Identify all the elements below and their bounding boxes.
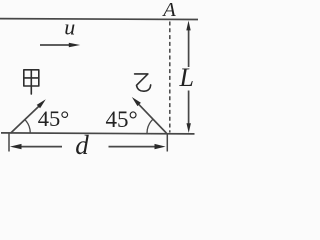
ground line [1,133,195,134]
dimension L upper arrow shaft [188,27,190,67]
arrowhead u [69,43,80,48]
svg-text:45°: 45° [38,106,70,131]
svg-text:d: d [75,130,89,160]
svg-text:u: u [64,15,75,40]
projectile arrow 甲 shaft [11,105,40,133]
dimension d right arrow shaft [109,146,159,148]
arrowhead L up [186,21,190,31]
arrowhead d left [10,144,22,149]
dashed vertical line [169,22,171,133]
label jia (Chinese char drawn as strokes) [24,70,39,94]
projectile arrow 乙 shaft [139,104,167,133]
extension tick right [166,134,168,152]
angle arc 45 right [147,119,153,133]
arrowhead 甲 [37,99,46,108]
arrowhead L down [187,123,191,133]
arrowhead 乙 [132,97,141,106]
dimension d left arrow shaft [17,146,63,148]
svg-text:A: A [161,0,176,21]
velocity arrow u shaft [40,44,70,46]
svg-text:45°: 45° [106,107,138,132]
arrowhead d right [155,144,166,149]
top boundary line A [0,18,198,21]
extension tick left [8,134,10,152]
svg-text:L: L [179,63,194,92]
label yi (Chinese char drawn as strokes) [135,74,151,91]
dimension L lower arrow shaft [188,91,190,128]
angle arc 45 left [25,119,31,133]
